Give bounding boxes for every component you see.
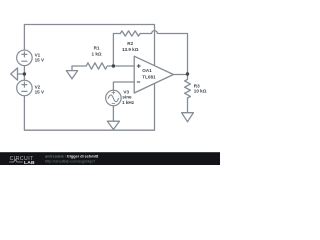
wire R2 right lead with hop over supply wire <box>140 31 187 74</box>
ground V3 <box>107 121 119 129</box>
svg-text:R1: R1 <box>94 45 100 50</box>
wire R2 left lead <box>113 34 120 67</box>
resistor R1 <box>72 63 134 69</box>
CircuitLab logo <box>9 156 35 166</box>
svg-text:OA1: OA1 <box>142 68 152 73</box>
ground R3 <box>182 98 194 122</box>
svg-text:R2: R2 <box>127 41 133 46</box>
wire ground lead left node <box>18 73 25 75</box>
svg-text:TL081: TL081 <box>142 74 156 79</box>
svg-text:15 V: 15 V <box>35 90 45 95</box>
ground left arrowhead <box>11 68 18 80</box>
ground R1 <box>66 66 77 79</box>
svg-text:sine: sine <box>122 95 132 100</box>
svg-text:LAB: LAB <box>24 160 35 165</box>
wire V3 top lead to inverting input <box>113 82 134 90</box>
svg-text:10 kΩ: 10 kΩ <box>194 88 207 93</box>
source V1 <box>17 50 33 66</box>
svg-text:15 V: 15 V <box>35 58 45 63</box>
svg-text:1 kHz: 1 kHz <box>122 100 135 105</box>
svg-text:13.9 kΩ: 13.9 kΩ <box>122 47 139 52</box>
resistor R2 <box>120 31 140 36</box>
wire op-amp output <box>173 74 187 76</box>
resistor R3 <box>185 74 191 98</box>
source V3 sine <box>106 90 122 106</box>
footer caption <box>45 155 99 164</box>
node non-inverting input junction <box>112 64 115 67</box>
footer bar <box>0 152 220 165</box>
source V2 <box>17 80 33 96</box>
wire V2 bottom to bottom rail to V- pin <box>24 84 154 130</box>
op-amp U1 triangle <box>134 56 173 93</box>
svg-text:andreadele / trigger di schmit: andreadele / trigger di schmitt <box>45 155 99 159</box>
svg-text:http://circuitlab.com/cqp24qs7: http://circuitlab.com/cqp24qs7 <box>45 160 95 164</box>
wire top rail V1 to V+ pin <box>24 25 154 66</box>
svg-text:1 kΩ: 1 kΩ <box>92 52 102 57</box>
svg-text:V3: V3 <box>123 89 129 94</box>
node V1-V2 ground junction <box>23 72 26 75</box>
node junction dots <box>23 64 190 75</box>
op-amp input polarity marks <box>137 64 141 82</box>
wire V3 bottom lead <box>112 106 114 122</box>
node output junction <box>186 72 189 75</box>
wire V1 bottom to V2 top <box>23 66 25 81</box>
